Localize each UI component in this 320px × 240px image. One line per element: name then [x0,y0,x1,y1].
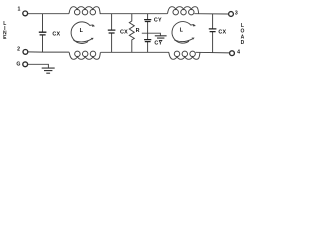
inductor L2 bottom winding [169,52,200,59]
node: CY midpoint junction [142,33,161,35]
ground (CY midpoint) [155,36,167,41]
wire: bottom rail right section [196,51,230,54]
svg-text:CX: CX [120,30,128,36]
LOAD label [240,23,244,46]
wire: top rail middle section [100,13,168,15]
capacitor CX2 [111,14,113,53]
svg-text:3: 3 [235,10,238,16]
wire: bottom rail left section [28,51,69,53]
svg-text:4: 4 [237,50,240,56]
inductor L1 bottom winding [69,52,100,59]
inductor L2 core circle with arrows [172,22,194,44]
wire: top rail left section [28,13,69,15]
svg-text:1: 1 [18,7,21,13]
terminal 2 [23,50,28,55]
svg-text:D: D [241,40,245,46]
wire: top rail right section [194,13,228,15]
svg-text:CY: CY [154,41,162,47]
capacitor CY1 [147,14,149,34]
svg-text:CX: CX [52,31,60,37]
capacitor CX3 [212,14,214,53]
inductor L1 core circle with arrows [71,22,93,44]
svg-text:R: R [136,28,140,34]
terminal G [23,62,28,67]
wire: bottom rail middle section [101,51,169,53]
resistor R [129,14,134,53]
wire: ground terminal to earth [28,64,49,68]
terminal 4 [230,51,235,56]
svg-text:2: 2 [17,47,20,53]
ground (chassis earth) [42,68,55,73]
svg-text:CY: CY [154,17,162,23]
inductor L1 top winding [69,7,100,14]
capacitor CY2 [147,33,149,52]
capacitor CX1 [42,14,44,52]
terminal 3 [229,12,234,17]
terminal 1 [23,11,28,16]
svg-text:G: G [16,61,20,67]
LINE label [3,21,7,41]
svg-text:CX: CX [218,29,226,35]
inductor L2 top winding [168,7,199,14]
